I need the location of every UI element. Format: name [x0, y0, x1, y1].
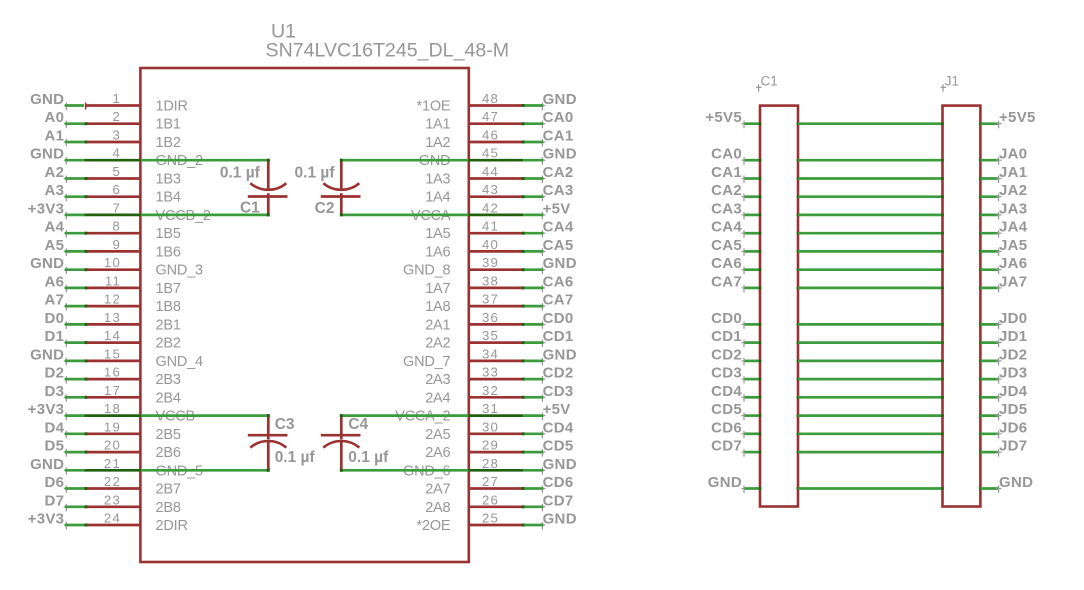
svg-text:44: 44	[482, 164, 499, 179]
svg-text:JD3: JD3	[999, 365, 1027, 382]
svg-text:CA2: CA2	[543, 164, 574, 181]
svg-text:CA3: CA3	[711, 200, 742, 217]
svg-text:CD6: CD6	[543, 474, 574, 491]
svg-text:A3: A3	[45, 182, 65, 199]
svg-text:GND: GND	[543, 255, 577, 272]
svg-text:D1: D1	[45, 328, 65, 345]
svg-text:*1OE: *1OE	[417, 99, 451, 115]
svg-text:28: 28	[482, 456, 499, 471]
svg-text:GND: GND	[30, 255, 64, 272]
svg-text:GND: GND	[543, 346, 577, 363]
svg-text:2A6: 2A6	[425, 445, 450, 461]
svg-text:2A3: 2A3	[425, 372, 450, 388]
svg-text:0.1 µf: 0.1 µf	[220, 164, 261, 181]
svg-text:46: 46	[482, 128, 499, 143]
svg-text:CD3: CD3	[543, 383, 574, 400]
svg-text:CD6: CD6	[711, 419, 742, 436]
svg-text:1A7: 1A7	[425, 281, 450, 297]
svg-text:9: 9	[112, 237, 121, 252]
svg-text:CA4: CA4	[543, 219, 574, 236]
svg-text:32: 32	[482, 383, 499, 398]
svg-text:2DIR: 2DIR	[156, 518, 188, 534]
svg-text:CD5: CD5	[711, 401, 742, 418]
svg-text:14: 14	[104, 328, 121, 343]
svg-text:42: 42	[482, 200, 499, 215]
svg-text:29: 29	[482, 438, 499, 453]
svg-text:1B1: 1B1	[156, 117, 181, 133]
svg-text:A1: A1	[45, 128, 65, 145]
svg-text:GND_8: GND_8	[403, 263, 450, 279]
svg-text:12: 12	[104, 292, 121, 307]
svg-text:1A8: 1A8	[425, 299, 450, 315]
svg-text:CA6: CA6	[711, 255, 742, 272]
svg-text:33: 33	[482, 365, 499, 380]
svg-text:34: 34	[482, 346, 499, 361]
svg-text:CA7: CA7	[543, 292, 574, 309]
svg-text:JA4: JA4	[999, 219, 1028, 236]
svg-text:1A1: 1A1	[425, 117, 450, 133]
svg-text:GND: GND	[30, 91, 64, 108]
svg-text:*2OE: *2OE	[417, 518, 451, 534]
svg-text:2B3: 2B3	[156, 372, 181, 388]
svg-text:1A5: 1A5	[425, 226, 450, 242]
svg-text:47: 47	[482, 109, 499, 124]
svg-text:A7: A7	[45, 292, 65, 309]
svg-text:JD5: JD5	[999, 401, 1027, 418]
svg-text:D3: D3	[45, 383, 65, 400]
svg-text:JD6: JD6	[999, 419, 1027, 436]
svg-text:JA1: JA1	[999, 164, 1027, 181]
svg-text:10: 10	[104, 255, 121, 270]
svg-text:JA0: JA0	[999, 146, 1027, 163]
svg-text:1: 1	[112, 91, 121, 106]
svg-text:36: 36	[482, 310, 499, 325]
svg-text:+5V: +5V	[543, 401, 571, 418]
svg-text:A5: A5	[45, 237, 65, 254]
svg-text:JD4: JD4	[999, 383, 1028, 400]
svg-text:GND_3: GND_3	[156, 263, 203, 279]
svg-text:CD1: CD1	[711, 328, 742, 345]
svg-text:37: 37	[482, 292, 499, 307]
svg-text:A2: A2	[45, 164, 65, 181]
svg-text:30: 30	[482, 419, 499, 434]
svg-text:CD4: CD4	[543, 419, 574, 436]
svg-text:16: 16	[104, 365, 121, 380]
svg-text:24: 24	[104, 511, 121, 526]
svg-text:45: 45	[482, 146, 499, 161]
svg-text:2A7: 2A7	[425, 482, 450, 498]
svg-text:JA3: JA3	[999, 200, 1027, 217]
svg-text:7: 7	[112, 200, 121, 215]
svg-text:1DIR: 1DIR	[156, 99, 188, 115]
svg-text:27: 27	[482, 474, 499, 489]
svg-text:JA6: JA6	[999, 255, 1027, 272]
svg-text:23: 23	[104, 492, 121, 507]
svg-text:2B8: 2B8	[156, 500, 181, 516]
svg-text:CD7: CD7	[543, 492, 574, 509]
svg-text:CA0: CA0	[711, 146, 742, 163]
svg-text:1A2: 1A2	[425, 135, 450, 151]
svg-text:CA6: CA6	[543, 273, 574, 290]
svg-text:3: 3	[112, 128, 121, 143]
svg-text:35: 35	[482, 328, 499, 343]
svg-text:CA1: CA1	[711, 164, 742, 181]
svg-text:2A8: 2A8	[425, 500, 450, 516]
svg-text:GND_7: GND_7	[403, 354, 450, 370]
svg-text:2A2: 2A2	[425, 336, 450, 352]
svg-text:A6: A6	[45, 273, 65, 290]
svg-text:+5V5: +5V5	[999, 109, 1036, 126]
svg-text:JA2: JA2	[999, 182, 1027, 199]
svg-text:22: 22	[104, 474, 121, 489]
svg-text:CA2: CA2	[711, 182, 742, 199]
svg-text:2B4: 2B4	[156, 390, 181, 406]
svg-text:C1: C1	[761, 73, 778, 88]
svg-text:D7: D7	[45, 492, 65, 509]
svg-text:2: 2	[112, 109, 121, 124]
svg-text:CA1: CA1	[543, 128, 574, 145]
svg-text:C3: C3	[275, 416, 295, 433]
svg-text:A0: A0	[45, 109, 65, 126]
svg-text:1B6: 1B6	[156, 244, 181, 260]
svg-text:20: 20	[104, 438, 121, 453]
svg-text:40: 40	[482, 237, 499, 252]
svg-text:19: 19	[104, 419, 121, 434]
svg-text:0.1 µf: 0.1 µf	[348, 449, 389, 466]
svg-text:JA5: JA5	[999, 237, 1027, 254]
svg-text:2B2: 2B2	[156, 336, 181, 352]
svg-text:J1: J1	[945, 73, 959, 88]
svg-text:2A5: 2A5	[425, 427, 450, 443]
svg-text:CA4: CA4	[711, 219, 742, 236]
svg-text:2A4: 2A4	[425, 390, 450, 406]
svg-text:CD2: CD2	[711, 346, 742, 363]
svg-text:38: 38	[482, 273, 499, 288]
svg-text:15: 15	[104, 346, 121, 361]
svg-text:D6: D6	[45, 474, 65, 491]
svg-text:D2: D2	[45, 365, 65, 382]
svg-text:1A6: 1A6	[425, 244, 450, 260]
svg-text:41: 41	[482, 219, 499, 234]
svg-text:GND: GND	[30, 456, 64, 473]
svg-text:39: 39	[482, 255, 499, 270]
svg-text:CD2: CD2	[543, 365, 574, 382]
svg-text:1B7: 1B7	[156, 281, 181, 297]
svg-text:CA0: CA0	[543, 109, 574, 126]
svg-text:CA7: CA7	[711, 273, 742, 290]
svg-text:6: 6	[112, 182, 121, 197]
svg-text:1B2: 1B2	[156, 135, 181, 151]
svg-text:0.1 µf: 0.1 µf	[275, 449, 316, 466]
svg-text:21: 21	[104, 456, 121, 471]
svg-text:2B1: 2B1	[156, 317, 181, 333]
svg-text:4: 4	[112, 146, 121, 161]
svg-text:GND: GND	[30, 146, 64, 163]
svg-text:GND: GND	[543, 91, 577, 108]
svg-text:GND: GND	[708, 474, 742, 491]
svg-text:CA5: CA5	[543, 237, 574, 254]
svg-text:+3V3: +3V3	[28, 401, 65, 418]
svg-text:13: 13	[104, 310, 121, 325]
svg-text:CA5: CA5	[711, 237, 742, 254]
svg-text:0.1 µf: 0.1 µf	[295, 164, 336, 181]
svg-text:2B6: 2B6	[156, 445, 181, 461]
svg-text:CD3: CD3	[711, 365, 742, 382]
svg-text:8: 8	[112, 219, 121, 234]
svg-text:GND: GND	[543, 511, 577, 528]
svg-text:2B7: 2B7	[156, 482, 181, 498]
svg-text:JD1: JD1	[999, 328, 1027, 345]
svg-text:GND: GND	[543, 456, 577, 473]
svg-text:C2: C2	[315, 200, 335, 217]
svg-text:D4: D4	[45, 419, 65, 436]
svg-text:11: 11	[105, 273, 121, 288]
svg-text:1B8: 1B8	[156, 299, 181, 315]
svg-text:1B3: 1B3	[156, 172, 181, 188]
svg-text:17: 17	[104, 383, 121, 398]
svg-text:1A3: 1A3	[425, 172, 450, 188]
svg-text:31: 31	[482, 401, 499, 416]
svg-text:CD1: CD1	[543, 328, 574, 345]
svg-text:JD0: JD0	[999, 310, 1027, 327]
svg-text:C4: C4	[348, 416, 368, 433]
svg-text:+3V3: +3V3	[28, 511, 65, 528]
svg-text:+3V3: +3V3	[28, 200, 65, 217]
svg-text:CA3: CA3	[543, 182, 574, 199]
svg-text:D0: D0	[45, 310, 65, 327]
svg-text:GND: GND	[543, 146, 577, 163]
svg-text:48: 48	[482, 91, 499, 106]
svg-text:5: 5	[112, 164, 121, 179]
svg-text:1B4: 1B4	[156, 190, 181, 206]
svg-text:SN74LVC16T245_DL_48-M: SN74LVC16T245_DL_48-M	[266, 39, 510, 61]
svg-text:CD5: CD5	[543, 438, 574, 455]
svg-text:GND: GND	[999, 474, 1033, 491]
svg-text:43: 43	[482, 182, 499, 197]
svg-text:CD7: CD7	[711, 438, 742, 455]
svg-text:18: 18	[104, 401, 121, 416]
svg-text:2A1: 2A1	[425, 317, 450, 333]
svg-text:26: 26	[482, 492, 499, 507]
svg-text:+5V5: +5V5	[705, 109, 742, 126]
svg-text:CD4: CD4	[711, 383, 742, 400]
svg-text:JA7: JA7	[999, 273, 1027, 290]
svg-text:C1: C1	[240, 199, 260, 216]
svg-text:CD0: CD0	[711, 310, 742, 327]
svg-text:1A4: 1A4	[425, 190, 450, 206]
svg-text:A4: A4	[45, 219, 65, 236]
svg-text:CD0: CD0	[543, 310, 574, 327]
svg-text:2B5: 2B5	[156, 427, 181, 443]
svg-text:JD7: JD7	[999, 438, 1027, 455]
svg-text:GND: GND	[30, 346, 64, 363]
svg-text:25: 25	[482, 511, 499, 526]
svg-text:+5V: +5V	[543, 200, 571, 217]
svg-text:GND_4: GND_4	[156, 354, 203, 370]
svg-text:1B5: 1B5	[156, 226, 181, 242]
svg-text:D5: D5	[45, 438, 65, 455]
svg-text:JD2: JD2	[999, 346, 1027, 363]
